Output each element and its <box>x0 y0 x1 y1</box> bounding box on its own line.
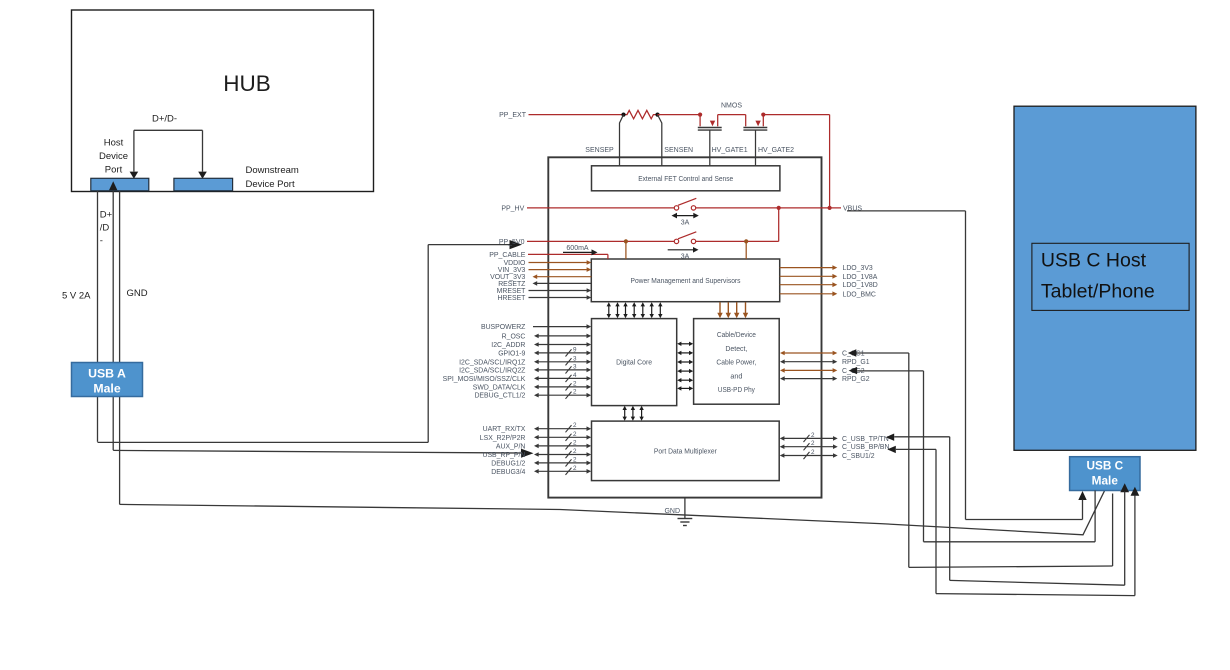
label 600mA <box>566 245 589 252</box>
svg-text:HRESET: HRESET <box>497 295 526 302</box>
svg-text:LSX_R2P/P2R: LSX_R2P/P2R <box>480 435 526 442</box>
label PP_CABLE <box>489 252 526 259</box>
USB A Male box <box>72 363 143 397</box>
label D+/D- cable <box>100 210 113 247</box>
Power Management and Supervisors box <box>591 259 779 302</box>
pin LDO_3V3 <box>780 265 873 272</box>
pin RPD_G2 <box>780 376 870 383</box>
svg-text:Power Management and Superviso: Power Management and Supervisors <box>631 278 741 285</box>
svg-text:/D: /D <box>100 223 110 234</box>
label GND <box>664 508 680 515</box>
label Downstream Device Port <box>246 165 299 190</box>
svg-text:2: 2 <box>573 380 577 387</box>
pin HRESET <box>497 295 591 302</box>
arrows Digital Core to Cable Detect <box>677 342 693 391</box>
svg-text:I2C_SDA/SCL/IRQ2Z: I2C_SDA/SCL/IRQ2Z <box>459 367 525 374</box>
Cable/Device Detect box <box>694 319 780 405</box>
svg-text:LDO_1V8A: LDO_1V8A <box>843 274 878 281</box>
pin C_USB_BP/BN <box>780 440 890 451</box>
svg-text:USB-PD Phy: USB-PD Phy <box>718 387 755 394</box>
arrow 3A SW2 <box>668 247 699 253</box>
svg-text:C_USB_TP/TN: C_USB_TP/TN <box>842 436 889 443</box>
arrows PM to Cable Detect <box>717 302 748 318</box>
USB C Male box <box>1070 457 1140 491</box>
pin LDO_1V8A <box>780 274 878 281</box>
svg-text:Digital Core: Digital Core <box>616 359 652 366</box>
pin BUSPOWERZ <box>481 324 591 331</box>
pin AUX_P/N <box>496 439 591 450</box>
label 3A SW2 <box>681 253 690 260</box>
svg-text:Device: Device <box>99 151 128 162</box>
wire PP_CABLE <box>528 254 608 259</box>
svg-text:Male: Male <box>93 382 120 396</box>
arrows PM to Digital Core <box>607 302 663 318</box>
label Host Device Port <box>99 138 128 176</box>
wire PP_EXT <box>529 114 624 116</box>
arrow into host port <box>109 181 117 190</box>
svg-text:Host: Host <box>104 138 124 149</box>
label PP_5V0 <box>499 239 525 246</box>
pin UART_RX/TX <box>483 422 592 433</box>
label VBUS <box>843 205 862 212</box>
svg-text:SENSEN: SENSEN <box>664 147 693 154</box>
svg-text:9: 9 <box>573 346 577 353</box>
junction SENSEP <box>621 113 625 117</box>
pin VIN_3V3 <box>498 267 591 274</box>
wire C_USB_TP/TN to USB C <box>886 434 1125 586</box>
pin DEBUG_CTL1/2 <box>474 389 591 400</box>
wire PP_HV to PP_5V0 <box>746 208 779 242</box>
svg-text:Port: Port <box>105 165 123 176</box>
svg-text:NMOS: NMOS <box>721 103 742 110</box>
wire NMOS to VBUS <box>763 115 829 208</box>
junction Q2 drain <box>761 113 765 117</box>
ground <box>678 519 693 526</box>
svg-text:I2C_ADDR: I2C_ADDR <box>491 342 525 349</box>
wire GND stem <box>684 498 686 519</box>
label PP_EXT <box>499 112 527 119</box>
svg-text:2: 2 <box>573 389 577 396</box>
pin VDDIO <box>504 260 592 267</box>
pin SPI_MOSI/MISO/SSZ/CLK <box>443 372 592 383</box>
label HV_GATE1 <box>712 147 748 154</box>
svg-text:RPD_G2: RPD_G2 <box>842 376 870 383</box>
svg-text:USB C Host: USB C Host <box>1041 250 1147 272</box>
wire C_CC1 to USB C <box>848 349 1113 567</box>
External FET Control and Sense box <box>592 166 780 191</box>
svg-text:3A: 3A <box>681 220 690 227</box>
svg-text:2: 2 <box>573 465 577 472</box>
pin LDO_1V8D <box>780 282 878 289</box>
wire SENSEN <box>658 115 662 166</box>
chip outline <box>548 157 821 497</box>
svg-text:2: 2 <box>573 456 577 463</box>
svg-text:LDO_3V3: LDO_3V3 <box>843 265 873 272</box>
svg-text:GPIO1-9: GPIO1-9 <box>498 350 525 357</box>
pin C_CC2 <box>780 368 865 375</box>
svg-text:R_OSC: R_OSC <box>502 333 526 340</box>
host device port box <box>91 178 149 191</box>
svg-text:3: 3 <box>573 355 577 362</box>
wire pin CC1 <box>1112 494 1114 567</box>
wire PP_HV right <box>696 207 841 209</box>
svg-text:SWD_DATA/CLK: SWD_DATA/CLK <box>473 384 526 391</box>
HUB box <box>72 10 374 192</box>
pin R_OSC <box>502 333 592 340</box>
svg-text:VIN_3V3: VIN_3V3 <box>498 267 526 274</box>
resistor sense <box>624 110 658 118</box>
svg-text:Cable/Device: Cable/Device <box>717 332 756 339</box>
wire data D+/D- usb-a <box>113 191 533 458</box>
switch SW1 <box>674 198 696 210</box>
svg-text:PP_HV: PP_HV <box>501 206 524 213</box>
USB C Host inner frame <box>1032 243 1189 310</box>
svg-text:5 V 2A: 5 V 2A <box>62 291 91 302</box>
svg-text:D+: D+ <box>100 210 113 221</box>
svg-text:-: - <box>100 236 103 247</box>
svg-text:SPI_MOSI/MISO/SSZ/CLK: SPI_MOSI/MISO/SSZ/CLK <box>443 376 526 383</box>
svg-text:2: 2 <box>573 448 577 455</box>
junction PP_5V0 a <box>624 239 628 243</box>
label NMOS <box>721 103 742 110</box>
svg-text:LDO_1V8D: LDO_1V8D <box>843 282 878 289</box>
HUB label <box>223 71 271 96</box>
pin VOUT_3V3 <box>490 274 591 281</box>
wire VBUS 5V usb-a <box>98 191 523 443</box>
svg-text:Device Port: Device Port <box>246 179 295 190</box>
label 3A SW1 <box>681 220 690 227</box>
arrows Digital Core to Port Mux <box>623 406 644 421</box>
svg-text:USB_RP_P/N: USB_RP_P/N <box>482 452 525 459</box>
arrow TP/TN into USB C <box>1120 483 1129 585</box>
Port Data Multiplexer box <box>592 421 780 481</box>
svg-text:USB A: USB A <box>88 367 126 381</box>
svg-text:and: and <box>730 373 742 380</box>
pin RPD_G1 <box>780 359 870 366</box>
wire drain link <box>658 114 701 116</box>
wire between NMOS <box>718 114 746 116</box>
pin RESETZ <box>498 281 591 288</box>
svg-text:2: 2 <box>811 432 815 439</box>
svg-text:2: 2 <box>811 440 815 447</box>
svg-text:PP_EXT: PP_EXT <box>499 112 527 119</box>
pin I2C_SDA/SCL/IRQ2Z <box>459 363 591 374</box>
Digital Core box <box>592 319 677 406</box>
label SENSEN <box>664 147 693 154</box>
junction PP_HV a <box>777 206 781 210</box>
transistor Q1 NMOS <box>698 115 722 166</box>
svg-text:3A: 3A <box>681 253 690 260</box>
arrow BP/BN into USB C <box>1131 487 1140 596</box>
label 5 V 2A <box>62 291 91 302</box>
junction SENSEN <box>655 113 659 117</box>
pin DEBUG3/4 <box>491 465 591 476</box>
svg-text:3: 3 <box>573 363 577 370</box>
label GND cable <box>127 288 148 299</box>
junction Q1 drain <box>698 113 702 117</box>
pin LDO_BMC <box>780 291 876 298</box>
svg-text:Detect,: Detect, <box>725 346 747 353</box>
USB C Host box <box>1014 106 1196 450</box>
svg-text:2: 2 <box>573 431 577 438</box>
wire C_CC2 to USB C <box>849 367 1096 542</box>
pin C_SBU1/2 <box>780 449 875 460</box>
pin I2C_SDA/SCL/IRQ1Z <box>459 355 591 366</box>
wire PP_5V0 to PM b <box>745 241 747 259</box>
svg-text:C_SBU1/2: C_SBU1/2 <box>842 453 875 460</box>
svg-text:4: 4 <box>573 372 577 379</box>
svg-text:HV_GATE2: HV_GATE2 <box>758 147 794 154</box>
pin SWD_DATA/CLK <box>473 380 591 391</box>
wire PP_5V0 right <box>696 240 747 242</box>
svg-text:Cable Power,: Cable Power, <box>716 360 756 367</box>
svg-text:PP_5V0: PP_5V0 <box>499 239 525 246</box>
svg-text:Tablet/Phone: Tablet/Phone <box>1041 281 1155 303</box>
svg-text:SENSEP: SENSEP <box>585 147 614 154</box>
transistor Q2 NMOS <box>743 115 767 166</box>
pin C_USB_TP/TN <box>780 432 889 443</box>
svg-text:VDDIO: VDDIO <box>504 260 526 267</box>
svg-text:MRESET: MRESET <box>497 288 527 295</box>
label USB C Host <box>1041 250 1155 303</box>
label PP_HV <box>501 206 524 213</box>
svg-text:C_USB_BP/BN: C_USB_BP/BN <box>842 444 890 451</box>
svg-text:LDO_BMC: LDO_BMC <box>843 291 876 298</box>
svg-text:BUSPOWERZ: BUSPOWERZ <box>481 324 525 331</box>
svg-text:AUX_P/N: AUX_P/N <box>496 443 526 450</box>
pin MRESET <box>497 288 592 295</box>
wire VBUS to USB C <box>847 211 1083 520</box>
label HV_GATE2 <box>758 147 794 154</box>
svg-text:PP_CABLE: PP_CABLE <box>489 252 526 259</box>
svg-text:HUB: HUB <box>223 71 271 96</box>
pin DEBUG1/2 <box>491 456 591 467</box>
pin GPIO1-9 <box>498 346 591 357</box>
svg-text:External FET Control and Sense: External FET Control and Sense <box>638 176 733 183</box>
svg-text:I2C_SDA/SCL/IRQ1Z: I2C_SDA/SCL/IRQ1Z <box>459 359 525 366</box>
switch SW2 <box>674 232 696 244</box>
svg-text:DEBUG1/2: DEBUG1/2 <box>491 460 525 467</box>
wire pin CC2 <box>1094 491 1096 542</box>
svg-text:UART_RX/TX: UART_RX/TX <box>483 426 526 433</box>
pin I2C_ADDR <box>491 342 591 349</box>
pin C_CC1 <box>780 351 865 358</box>
label D+/D- hub <box>152 114 177 125</box>
svg-text:RESETZ: RESETZ <box>498 281 525 288</box>
downstream device port box <box>174 178 233 191</box>
label SENSEP <box>585 147 614 154</box>
svg-text:Male: Male <box>1092 474 1119 488</box>
svg-text:DEBUG3/4: DEBUG3/4 <box>491 469 525 476</box>
svg-text:2: 2 <box>811 449 815 456</box>
arrow 600mA <box>563 249 598 255</box>
wire C_USB_BP/BN to USB C <box>887 446 1135 596</box>
svg-text:600mA: 600mA <box>566 245 589 252</box>
svg-text:GND: GND <box>664 508 680 515</box>
svg-text:DEBUG_CTL1/2: DEBUG_CTL1/2 <box>474 393 525 400</box>
arrow VBUS into USB C <box>1078 491 1086 520</box>
svg-text:RPD_G1: RPD_G1 <box>842 359 870 366</box>
pin LSX_R2P/P2R <box>480 431 591 442</box>
svg-text:2: 2 <box>573 439 577 446</box>
wire D+/D- hub bracket <box>130 130 207 179</box>
pin USB_RP_P/N <box>482 448 591 459</box>
wire PP_5V0 to PM a <box>625 241 627 259</box>
wire GND usb-a <box>120 191 1105 535</box>
wire PP_HV left <box>527 207 674 209</box>
svg-text:Downstream: Downstream <box>246 165 299 176</box>
arrow 3A SW1 <box>672 213 699 219</box>
svg-text:D+/D-: D+/D- <box>152 114 177 125</box>
svg-text:Port Data Multiplexer: Port Data Multiplexer <box>654 448 718 455</box>
svg-text:HV_GATE1: HV_GATE1 <box>712 147 748 154</box>
svg-text:GND: GND <box>127 288 148 299</box>
svg-text:USB C: USB C <box>1086 459 1123 473</box>
junction PP_HV b <box>828 206 832 210</box>
wire PP_5V0 left <box>527 240 674 242</box>
wire SENSEP <box>620 115 624 166</box>
junction PP_5V0 b <box>744 239 748 243</box>
svg-text:2: 2 <box>573 422 577 429</box>
